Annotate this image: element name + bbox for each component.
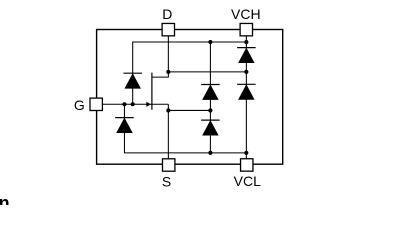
svg-text:S: S	[162, 173, 171, 189]
svg-text:VCL: VCL	[234, 173, 261, 189]
svg-text:G: G	[74, 97, 85, 113]
svg-text:VCH: VCH	[231, 6, 261, 22]
svg-text:D: D	[162, 6, 172, 22]
svg-text:n: n	[0, 193, 10, 205]
